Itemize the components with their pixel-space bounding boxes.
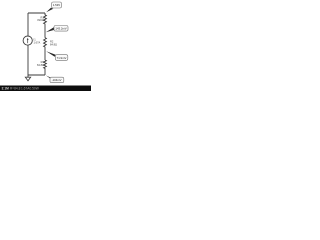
resistor R1	[37, 13, 46, 26]
ground node callout	[46, 75, 64, 82]
status bar	[0, 86, 91, 92]
svg-text:84.8Ω: 84.8Ω	[50, 43, 57, 47]
svg-text:820Ω: 820Ω	[37, 18, 43, 22]
svg-text:3:1M: 3:1M	[2, 87, 10, 91]
svg-text:1.53V: 1.53V	[53, 3, 60, 7]
node A voltage callout	[46, 2, 61, 12]
wire top from source to node A	[28, 12, 45, 14]
wire node B segment	[44, 26, 46, 38]
node C voltage callout	[46, 51, 68, 60]
svg-text:0.50W: 0.50W	[30, 87, 39, 91]
current source I1	[23, 36, 40, 45]
svg-text:-104mV: -104mV	[52, 78, 62, 82]
ground	[25, 75, 30, 81]
wire bottom	[28, 74, 45, 76]
svg-text:143.2mV: 143.2mV	[55, 27, 66, 31]
wire left rail upper	[27, 13, 29, 36]
svg-text:1.67A: 1.67A	[34, 40, 41, 44]
wire left rail lower	[27, 45, 29, 75]
svg-text:R2: R2	[50, 39, 54, 43]
resistor R2	[44, 38, 57, 49]
svg-text:71.9mV: 71.9mV	[57, 56, 67, 60]
wire node C segment	[44, 49, 46, 60]
svg-text:84.8Ω: 84.8Ω	[37, 63, 44, 67]
node B voltage callout	[46, 26, 68, 33]
resistor R3	[37, 60, 46, 75]
svg-text:R=84.8: R=84.8	[10, 87, 21, 91]
